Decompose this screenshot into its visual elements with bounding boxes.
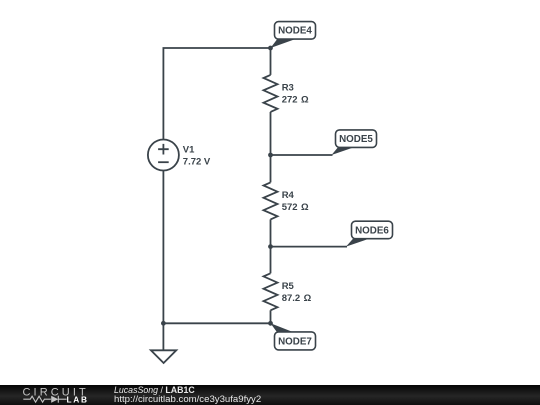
footer bar <box>0 385 540 405</box>
svg-text:R3: R3 <box>282 83 294 94</box>
node junction dot NODE4 <box>268 46 273 51</box>
wire top horizontal + left rail upper <box>163 48 270 140</box>
svg-text:R5: R5 <box>282 281 295 292</box>
svg-text:R4: R4 <box>282 190 295 201</box>
svg-text:NODE7: NODE7 <box>278 336 312 347</box>
wire right rail seg2 <box>270 112 272 182</box>
resistor R5 <box>264 273 278 310</box>
V1 plus sign <box>158 144 169 155</box>
ground <box>151 350 176 363</box>
voltage source V1 circle <box>148 140 179 171</box>
svg-text:V1: V1 <box>183 145 195 156</box>
V1 minus sign <box>158 161 169 163</box>
wire left rail lower <box>162 171 164 324</box>
resistor R3 <box>264 75 278 112</box>
node NODE4 flag <box>271 22 316 48</box>
node NODE6 flag <box>346 221 393 246</box>
node junction dot ground <box>161 321 166 326</box>
svg-text:NODE6: NODE6 <box>355 225 389 236</box>
wire right rail seg1 <box>270 48 272 75</box>
wire right rail seg3 <box>270 219 272 273</box>
node junction dot NODE7 <box>268 321 273 326</box>
svg-text:NODE4: NODE4 <box>278 26 312 37</box>
svg-text:572 Ω: 572 Ω <box>282 202 309 213</box>
wire ground stub <box>162 323 164 350</box>
resistor R4 <box>264 182 278 219</box>
wire right rail seg4 <box>270 310 272 323</box>
svg-text:7.72 V: 7.72 V <box>183 156 211 167</box>
node junction dot NODE5 <box>268 153 273 158</box>
wire node6 stub <box>271 246 348 248</box>
node NODE7 flag <box>271 323 316 350</box>
svg-text:NODE5: NODE5 <box>339 134 373 145</box>
footer title text <box>114 386 195 396</box>
node junction dot NODE6 <box>268 244 273 249</box>
wire node5 stub <box>271 154 333 156</box>
svg-text:LAB: LAB <box>67 394 89 404</box>
node NODE5 flag <box>332 130 377 155</box>
footer url text <box>114 395 261 405</box>
svg-text:272 Ω: 272 Ω <box>282 95 309 106</box>
CircuitLab logo <box>0 385 110 405</box>
svg-text:87.2 Ω: 87.2 Ω <box>282 293 312 304</box>
wire bottom horizontal <box>163 322 270 324</box>
